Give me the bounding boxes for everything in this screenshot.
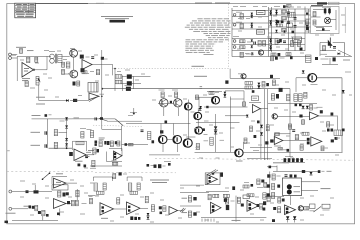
diode D106a — [269, 20, 271, 22]
resistor R23b — [300, 145, 303, 150]
U9 loop wire — [52, 175, 67, 177]
marks x146 — [147, 164, 150, 167]
resistor R17 — [240, 52, 243, 57]
wire x290 rail — [289, 89, 291, 157]
label Q3 — [159, 89, 165, 91]
top cluster U11 — [113, 174, 116, 179]
AC source S2 — [233, 24, 236, 27]
row2 left — [182, 212, 188, 214]
regulator U102 — [257, 30, 265, 34]
label R101 — [236, 11, 242, 13]
wire x199 vertical — [198, 97, 200, 107]
wire Q7 left — [296, 77, 308, 79]
resistor R11 — [54, 142, 57, 148]
diode D105a — [269, 10, 271, 12]
partition dashed bottom-mid — [95, 172, 176, 174]
blob cap x102 — [101, 57, 104, 60]
diode Q10 right — [203, 128, 205, 131]
op-amp U3 — [74, 149, 86, 161]
resistor R30 — [71, 200, 74, 206]
resistor R15 — [112, 162, 118, 165]
PSU rail C — [271, 7, 273, 52]
resistor R18c — [287, 94, 290, 101]
diode D112 — [251, 45, 253, 47]
bias text top — [200, 86, 203, 88]
diode D114b — [269, 41, 271, 43]
reg box vertical wire — [344, 7, 346, 33]
dark marks I — [331, 139, 334, 142]
resistor R42 — [223, 194, 229, 197]
resistor R43 — [237, 197, 240, 203]
resistor R8 — [96, 70, 99, 75]
resistor R20 — [299, 94, 303, 102]
regulator U101 — [257, 10, 266, 14]
wire Q stack v — [197, 108, 199, 112]
resistor R109 — [263, 41, 266, 47]
diode D-q7 — [302, 70, 305, 73]
diode D113 — [283, 30, 285, 32]
comp M2 — [26, 190, 29, 193]
diode D1 — [66, 99, 69, 102]
wire x77 v — [76, 189, 78, 200]
left col output2 — [267, 184, 270, 187]
switch SW2b — [99, 118, 108, 121]
cluster P2 — [159, 206, 162, 209]
resistor R12 — [76, 141, 84, 144]
blob bus end — [279, 88, 283, 92]
drawing title SOG-88 — [110, 20, 126, 23]
comp H — [335, 137, 338, 140]
border tick left — [7, 150, 10, 152]
wire U10 out — [66, 203, 71, 205]
resistor R44 — [247, 194, 254, 197]
cap left edge — [141, 129, 144, 131]
U14 box — [205, 173, 220, 185]
wire x66.8 vert — [66, 119, 68, 148]
diode U6 top — [320, 110, 323, 113]
relay box — [283, 178, 302, 196]
fb resistor R37 — [130, 191, 138, 194]
driver Q4 — [174, 99, 182, 107]
partition dashed bottom-left — [7, 170, 95, 172]
wire base Q2 — [65, 73, 70, 75]
PSU h-wire 5 — [269, 8, 311, 10]
reg box header — [311, 5, 323, 7]
label PSU1 — [233, 36, 239, 38]
driver Q12 — [159, 136, 167, 144]
op-amp U11 — [100, 203, 114, 215]
op-amp U7 — [274, 137, 283, 145]
label ch1 — [31, 131, 41, 133]
capacitor C6 — [44, 144, 46, 148]
diode D110 — [338, 53, 340, 55]
mute label 1 — [36, 96, 45, 98]
diode Q8 top — [200, 106, 202, 108]
relay coil box — [252, 96, 259, 101]
wire Q3Q4 — [158, 102, 174, 104]
wire U1 out — [34, 69, 47, 71]
rail x261 — [260, 108, 262, 158]
wire x297 v — [295, 78, 297, 92]
title block — [15, 3, 36, 18]
wire x216 v — [215, 114, 217, 152]
resistor R114 — [323, 46, 326, 51]
text row left1 — [6, 212, 16, 214]
wire L — [160, 124, 162, 136]
resistor R104 — [282, 17, 287, 20]
diode D15 — [246, 115, 249, 118]
U11 out wire — [114, 208, 127, 210]
resistor R5 — [66, 62, 70, 68]
wire y152.1 — [195, 151, 236, 153]
mid rail comps — [250, 126, 253, 132]
resistor R19 — [294, 94, 298, 102]
resistor R21 — [302, 120, 305, 125]
diode D102 — [251, 15, 253, 17]
psu low marks — [315, 57, 318, 60]
PSU rail E — [294, 9, 296, 51]
reg box wires — [313, 9, 324, 11]
wire bus cont — [70, 100, 89, 102]
component value labels scatter — [44, 50, 49, 52]
wire y78 — [230, 77, 280, 79]
relay labels — [294, 186, 301, 188]
bottom row psu — [251, 53, 253, 55]
capacitor C105 — [277, 40, 280, 42]
label C107 — [322, 6, 331, 8]
label rail right — [345, 71, 351, 73]
mid col comps — [225, 198, 228, 204]
header text center — [195, 2, 212, 4]
text bottom right1 — [150, 179, 169, 181]
resistor R29 — [58, 191, 61, 197]
label x102 — [104, 58, 108, 60]
rail x268 — [267, 89, 269, 160]
input jack J2 — [9, 207, 12, 210]
resistor R2 — [27, 57, 30, 63]
label T — [232, 219, 241, 221]
PSU h-wire 12 — [232, 50, 305, 52]
blob comp1 — [100, 117, 103, 120]
partition dotted mid-upper — [93, 125, 142, 126]
arrow marks U13 — [180, 208, 184, 212]
resistor R23 — [295, 135, 298, 140]
res col y81 — [262, 82, 265, 88]
dark comp E — [333, 57, 336, 61]
dark blob stack1 — [127, 74, 132, 78]
AC source S4 — [233, 46, 236, 49]
diode D114c — [269, 45, 271, 47]
label Q — [204, 120, 209, 122]
capacitor C106 — [283, 40, 286, 42]
dark diamond W — [272, 219, 275, 222]
diode pair P — [147, 213, 150, 216]
label R17 — [245, 53, 250, 55]
capacitor C107 — [324, 9, 327, 14]
marks y107 — [206, 106, 208, 108]
resistor R111 — [298, 41, 301, 47]
PSU h-wire 3 — [232, 22, 269, 24]
resistor R110 — [291, 41, 294, 47]
PSU h-wire 2 — [232, 16, 269, 18]
diode D18 — [214, 126, 217, 129]
resistor R4 — [58, 54, 62, 62]
dark caps U8 — [307, 138, 310, 141]
marks on x342 — [342, 129, 345, 132]
transistor Q6 — [212, 97, 219, 104]
U5 feedback — [249, 102, 261, 104]
partition dotted vertical — [228, 4, 230, 69]
dark U7 in — [270, 139, 273, 142]
op-amp U5 — [253, 105, 261, 113]
diode D111 — [251, 39, 253, 41]
wire x133.8 v — [133, 108, 135, 114]
diode D103 — [251, 23, 253, 25]
cluster x255 — [257, 179, 260, 185]
partition dashed bottom-right — [155, 158, 353, 160]
driver Q12b — [174, 136, 182, 144]
resistor R-stack2 — [115, 80, 122, 84]
label below U4 — [112, 159, 117, 161]
resistor R18 — [271, 94, 274, 100]
resistor R35 — [137, 183, 140, 190]
U15 fb wire — [206, 191, 229, 193]
label y171 — [327, 170, 332, 172]
rect comp U — [310, 204, 316, 209]
wire T1-Q1 — [62, 55, 70, 57]
PSU h-wire 13 — [232, 56, 310, 58]
blob between drivers — [170, 101, 172, 104]
U4 labels — [99, 137, 105, 139]
diode col 1 — [65, 117, 68, 120]
switch scribble center — [207, 170, 216, 176]
relay K1 pole1 — [287, 184, 292, 189]
wire y171.4 — [273, 170, 319, 172]
capacitor C109 — [333, 46, 336, 48]
wire y196.6 — [265, 196, 284, 198]
resistor above Q4 — [175, 92, 178, 98]
wire x47.6 vert — [47, 119, 49, 148]
resistor R6a — [62, 62, 65, 67]
wire y155 mid — [149, 154, 180, 156]
label E — [343, 59, 350, 61]
resistor R34 — [128, 183, 131, 191]
resistor above Q3 — [161, 92, 164, 98]
bottom wire long — [12, 219, 58, 221]
cluster above SW2 — [130, 112, 137, 114]
PSU rail F — [304, 7, 306, 52]
gain pot VR1 — [36, 77, 39, 86]
dark diamond tone — [299, 115, 302, 118]
resistor R30b — [76, 190, 79, 197]
resistor R10 — [54, 130, 57, 136]
psu low res tall — [306, 55, 312, 63]
label small x60 — [60, 120, 65, 122]
comps below U3 — [78, 164, 81, 167]
capacitor C15 — [224, 198, 227, 202]
op-amp U16 — [247, 200, 259, 211]
diode pair y83 — [258, 83, 261, 86]
wire U7 out — [283, 140, 307, 142]
dark cluster x153 — [154, 165, 157, 168]
wire y166.8 — [267, 166, 277, 168]
marks above coil — [252, 90, 255, 93]
transistor Q2 — [70, 70, 78, 78]
label ch2 — [31, 144, 41, 146]
resistor row D — [245, 86, 253, 89]
resistor R22 — [275, 133, 280, 136]
resistor R105 — [282, 29, 287, 32]
blob psu low — [290, 56, 293, 59]
wire y123.5 — [126, 123, 191, 125]
resistor R101 — [240, 14, 243, 20]
resistor R28 — [148, 132, 151, 140]
op-amp U9 — [54, 178, 67, 188]
preamp wire down — [38, 85, 40, 101]
power transistor Q8 — [185, 103, 192, 110]
dark pair R25b — [327, 129, 330, 132]
wire box down — [229, 69, 231, 79]
wire diodes — [287, 220, 289, 223]
input label text — [16, 46, 26, 48]
PSU h-wire 10 — [232, 38, 305, 40]
bias comps — [209, 92, 214, 95]
blob PSU right — [300, 48, 303, 51]
label right diode — [74, 117, 80, 119]
wire y192.4 — [180, 191, 209, 193]
op-amp U6 — [310, 112, 319, 120]
text bottom right2 — [152, 182, 167, 184]
label rail — [253, 150, 259, 152]
marks above U6wire — [331, 113, 334, 116]
diode D107 — [275, 20, 277, 22]
blob R18b — [276, 94, 279, 99]
op-amp U2 — [82, 60, 92, 70]
label u6 — [317, 106, 323, 108]
transistor Q13 — [298, 206, 303, 211]
wire x115 vertical — [114, 69, 116, 92]
res psu mid2 — [275, 39, 278, 45]
mute wire bus — [39, 100, 66, 102]
U4 loop box — [106, 152, 108, 162]
op-amp U13 — [169, 207, 178, 215]
op-amp U8 — [311, 137, 322, 146]
wire U13 out — [178, 210, 184, 212]
label PSU2 — [246, 53, 254, 55]
capacitor C101b — [287, 11, 290, 13]
wire y152.4 long — [243, 151, 343, 153]
wire y103.5 — [268, 103, 317, 105]
PSU h-wire 11 — [232, 44, 305, 46]
marks u6 in — [310, 105, 313, 111]
resistor R40 — [208, 194, 211, 200]
resistor R112 — [313, 12, 316, 17]
emitter cluster Q2 — [73, 82, 76, 86]
power transistor Q7 — [308, 74, 316, 82]
diode stack D14 — [224, 95, 227, 98]
op-amp U15 — [211, 202, 222, 213]
wire x343 down — [341, 78, 343, 153]
XLR input J3 — [9, 53, 12, 56]
resistor R38 — [151, 205, 154, 212]
wire U5 out — [260, 108, 267, 110]
res right bias — [196, 95, 199, 100]
resistor row C — [245, 82, 253, 85]
wire y99 stub — [230, 98, 244, 100]
wire y195.7 — [88, 195, 99, 197]
cap pack PSU — [288, 12, 296, 17]
U7 fb wires — [275, 133, 291, 135]
wire y116.5 — [277, 116, 309, 118]
transistor Q11 — [235, 149, 243, 157]
marks x86 y134 — [80, 128, 86, 130]
resistor R107 — [240, 46, 246, 49]
capacitor C108 — [328, 9, 331, 14]
section label B — [194, 75, 207, 77]
blob psu m1 — [292, 31, 295, 34]
wire stack h1 — [122, 75, 127, 77]
diode D104 — [251, 25, 253, 27]
resistor R102 — [240, 24, 243, 29]
marks right U14 box — [220, 172, 223, 176]
partition dotted horizontal — [113, 68, 229, 70]
dark border blob — [5, 221, 9, 224]
capacitor C-U3in — [69, 152, 73, 156]
diode D7 — [306, 106, 309, 109]
PSU h-wire 8 — [269, 26, 306, 28]
resistor R108 — [258, 41, 261, 47]
resistor R-rail — [266, 125, 269, 131]
fb resistor R36 — [97, 191, 105, 194]
wire y64 — [322, 63, 338, 65]
PSU rail A — [231, 8, 233, 57]
input cap C8 — [94, 117, 96, 120]
dark blob stack2 — [127, 81, 132, 85]
resistor R9 dark — [73, 99, 77, 102]
label above U9 — [56, 173, 63, 175]
rect comp S — [243, 195, 250, 199]
wire M3 up — [34, 185, 36, 190]
text row below caps — [273, 162, 289, 164]
diode D101 — [251, 13, 253, 15]
wire Q7 right — [317, 77, 342, 79]
marks x165 — [164, 161, 171, 163]
capacitor C101c — [287, 21, 290, 23]
switch SW2 — [115, 119, 123, 126]
wire y122.4 — [196, 121, 240, 123]
wire x188 v — [188, 100, 190, 104]
resistor R1 — [20, 49, 23, 54]
dark blob stack3 — [126, 87, 131, 91]
junction node A — [66, 147, 68, 149]
op-amp U17 — [285, 205, 296, 215]
blob under R28 — [152, 140, 155, 143]
wire Q1-Q2 — [73, 57, 75, 70]
bottom cluster N — [38, 211, 41, 214]
diode D108 — [275, 22, 277, 24]
transformer T2 — [88, 83, 98, 93]
resistor R45 — [304, 207, 309, 210]
label R102 — [236, 21, 242, 23]
rect comp V2 — [322, 204, 330, 208]
label R1b — [27, 50, 34, 52]
label speaker — [321, 188, 331, 190]
left col bottom — [90, 198, 93, 204]
U11 fb loop — [93, 176, 112, 178]
resistor R41 — [213, 194, 219, 197]
switch SW1 — [89, 97, 98, 102]
transistor Q14 — [272, 114, 277, 119]
